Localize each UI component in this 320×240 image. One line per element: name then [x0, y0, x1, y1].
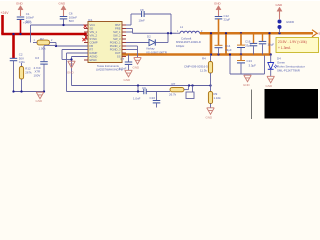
svg-text:GND6: GND6: [286, 20, 294, 24]
svg-text:PGND_1: PGND_1: [110, 41, 121, 45]
svg-text:+ 1.3mA: + 1.3mA: [278, 46, 291, 50]
svg-text:RT: RT: [90, 48, 94, 52]
svg-text:GND: GND: [67, 71, 75, 75]
svg-text:22µF: 22µF: [224, 18, 231, 22]
svg-text:10µF: 10µF: [268, 43, 275, 47]
svg-text:VIN_1: VIN_1: [90, 30, 98, 34]
svg-text:BST: BST: [115, 23, 121, 27]
svg-text:GND: GND: [214, 1, 222, 5]
svg-text:SW_1: SW_1: [113, 30, 121, 34]
svg-text:PGND_3: PGND_3: [110, 48, 121, 52]
svg-text:1.10k: 1.10k: [214, 96, 222, 100]
svg-text:COMP: COMP: [90, 41, 98, 45]
svg-text:GND: GND: [59, 1, 67, 5]
svg-text:23.5V - 1.9V (<10k): 23.5V - 1.9V (<10k): [278, 40, 307, 44]
svg-text:IC1: IC1: [88, 18, 93, 22]
svg-text:AGND: AGND: [90, 55, 98, 59]
svg-text:SW_2: SW_2: [113, 34, 121, 38]
svg-text:1.0nF: 1.0nF: [133, 97, 141, 101]
svg-text:+24V0: +24V0: [23, 21, 32, 25]
svg-text:11.3k: 11.3k: [200, 68, 207, 72]
svg-text:GND: GND: [16, 1, 24, 5]
svg-text:100V: 100V: [34, 74, 41, 78]
svg-text:R4: R4: [202, 57, 206, 61]
svg-text:GND: GND: [266, 84, 274, 88]
svg-text:PGND_2: PGND_2: [110, 44, 121, 48]
svg-text:RAMP: RAMP: [90, 51, 98, 55]
svg-text:D2: D2: [147, 35, 151, 39]
svg-text:26.7k: 26.7k: [169, 93, 177, 97]
svg-text:GND: GND: [206, 115, 214, 119]
svg-text:GND: GND: [36, 99, 44, 103]
svg-text:+24V: +24V: [1, 11, 10, 15]
svg-text:R2: R2: [40, 37, 44, 41]
svg-text:C13: C13: [247, 59, 253, 63]
svg-text:SYNC: SYNC: [90, 37, 98, 41]
svg-text:50V: 50V: [69, 19, 74, 23]
svg-text:C10: C10: [150, 96, 156, 100]
svg-text:100µH: 100µH: [176, 44, 184, 48]
svg-text:267k: 267k: [25, 70, 32, 74]
svg-text:SML-P12KTT86R: SML-P12KTT86R: [277, 69, 300, 73]
svg-text:3.3µF: 3.3µF: [249, 64, 257, 68]
svg-text:PRE: PRE: [115, 27, 121, 31]
svg-text:GND: GND: [276, 3, 284, 7]
svg-text:SW_3: SW_3: [113, 37, 121, 41]
svg-text:EPAD: EPAD: [90, 58, 97, 62]
svg-text:C0G: C0G: [19, 60, 26, 64]
svg-text:C3: C3: [35, 56, 39, 60]
svg-text:R7: R7: [172, 82, 176, 86]
svg-text:SD: SD: [90, 27, 94, 31]
svg-text:GND: GND: [133, 66, 141, 70]
svg-text:GND: GND: [243, 83, 251, 87]
svg-text:C7: C7: [121, 57, 125, 61]
svg-text:OUT: OUT: [115, 51, 121, 55]
svg-text:33µF: 33µF: [225, 48, 232, 52]
svg-text:VCC: VCC: [90, 23, 96, 27]
svg-text:C9: C9: [142, 86, 146, 90]
svg-text:10nF: 10nF: [139, 19, 146, 23]
svg-text:1.00k: 1.00k: [39, 46, 47, 50]
svg-text:C8: C8: [140, 8, 144, 12]
svg-text:VIN_2: VIN_2: [90, 34, 98, 38]
svg-text:GND: GND: [124, 78, 132, 82]
svg-text:L1: L1: [180, 25, 184, 29]
svg-text:FB: FB: [90, 44, 94, 48]
svg-text:6.2nF: 6.2nF: [119, 66, 127, 70]
